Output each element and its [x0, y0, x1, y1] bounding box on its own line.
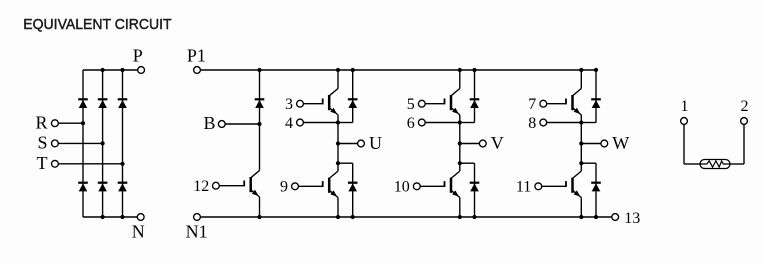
terminal 2: [741, 118, 748, 125]
terminal 10: [413, 183, 420, 190]
node V FWD rail junction: [472, 68, 476, 72]
terminal V: [479, 140, 486, 147]
node U lower branch junction: [336, 161, 340, 165]
svg-text:12: 12: [193, 178, 209, 195]
diode D4 rectifier leg1 lower: [78, 182, 88, 184]
svg-text:P1: P1: [187, 46, 206, 66]
wire V lower emitter: [459, 198, 461, 218]
svg-text:N1: N1: [186, 222, 208, 242]
wire upper emitter U: [337, 115, 339, 144]
svg-text:V: V: [491, 133, 504, 153]
node W emitter-sense junction: [579, 120, 583, 124]
diode D11 lower FWD: [470, 182, 480, 184]
wire U-phase upper collector: [337, 70, 339, 89]
wire W-phase upper collector: [580, 70, 582, 89]
transistor Q6 lower IGBT: [573, 171, 581, 178]
node V lower branch junction: [458, 161, 462, 165]
transistor Q5 upper IGBT: [573, 89, 581, 96]
node brake bottom rail junction: [257, 215, 261, 219]
svg-text:2: 2: [741, 98, 749, 115]
wire W FWD lower vertical: [595, 163, 597, 217]
node R junction: [81, 121, 85, 125]
wire upper emitter W: [580, 115, 582, 144]
wire W output: [581, 143, 601, 145]
svg-text:5: 5: [407, 96, 415, 113]
terminal 7: [540, 100, 547, 107]
wire pin3 gate: [304, 103, 323, 105]
node U output junction: [336, 141, 340, 145]
terminal 5: [418, 100, 425, 107]
terminal P1: [194, 67, 201, 74]
terminal U: [358, 140, 365, 147]
wire W lower branch: [581, 162, 596, 164]
wire pin6 emitter sense: [425, 122, 460, 124]
terminal 11: [535, 183, 542, 190]
node V bottom rail junction: [458, 215, 462, 219]
wire U mid vertical: [337, 144, 339, 172]
terminal 13: [612, 214, 619, 221]
svg-text:B: B: [203, 113, 215, 133]
node V output junction: [458, 141, 462, 145]
node B junction: [257, 122, 261, 126]
node V FWD bottom rail junction: [472, 215, 476, 219]
wire rectifier leg 2 vertical: [102, 70, 104, 217]
terminal R: [52, 120, 59, 127]
wire pin8 emitter sense: [547, 122, 582, 124]
wire S to leg: [58, 142, 102, 144]
wire rectifier top rail: [83, 69, 138, 71]
wire P1 top rail: [201, 69, 597, 71]
transistor Q1 upper IGBT: [330, 89, 338, 96]
node W FWD bottom rail junction: [594, 215, 598, 219]
wire pin12 gate: [219, 185, 244, 187]
wire brake emitter: [259, 197, 261, 217]
wire U lower emitter: [337, 198, 339, 218]
svg-text:EQUIVALENT CIRCUIT: EQUIVALENT CIRCUIT: [23, 16, 171, 33]
transistor Q7 brake IGBT: [251, 171, 259, 178]
thermistor RT1 body: [700, 160, 730, 169]
terminal W: [601, 140, 608, 147]
wire upper emitter V: [459, 115, 461, 144]
wire pin9 gate: [299, 185, 323, 187]
node U upper collector rail junction: [336, 68, 340, 72]
terminal 4: [297, 119, 304, 126]
wire pin4 emitter sense: [304, 122, 339, 124]
svg-text:8: 8: [528, 115, 536, 132]
node W bottom rail junction: [579, 215, 583, 219]
svg-text:4: 4: [285, 115, 293, 132]
node brake top rail junction: [257, 68, 261, 72]
svg-text:10: 10: [394, 179, 410, 196]
wire pin11 gate: [542, 185, 566, 187]
node U FWD rail junction: [351, 68, 355, 72]
wire W FWD upper vertical: [595, 70, 597, 123]
terminal S: [52, 140, 59, 147]
wire R to leg: [58, 122, 83, 124]
node U emitter-sense junction: [336, 120, 340, 124]
terminal 6: [418, 119, 425, 126]
diode D5 rectifier leg2 lower: [98, 182, 108, 184]
wire U FWD lower vertical: [352, 163, 354, 217]
terminal 8: [540, 119, 547, 126]
node W lower branch junction: [579, 161, 583, 165]
wire N1 bottom rail: [201, 216, 612, 218]
wire rectifier leg 3 vertical: [122, 70, 124, 217]
wire B to brake leg: [225, 123, 259, 125]
transistor Q3 upper IGBT: [452, 89, 460, 96]
svg-text:R: R: [35, 113, 47, 133]
wire V FWD upper vertical: [474, 70, 476, 123]
svg-text:W: W: [612, 133, 629, 153]
wire V-phase upper collector: [459, 70, 461, 89]
node U FWD bottom rail junction: [351, 215, 355, 219]
wire V output: [460, 143, 480, 145]
terminal N1: [194, 214, 201, 221]
diode D6 rectifier leg3 lower: [118, 182, 128, 184]
diode D10 upper FWD: [470, 98, 480, 100]
diode D9 lower FWD: [348, 182, 358, 184]
wire thermistor right: [743, 125, 745, 165]
diode D2 rectifier leg2 upper: [98, 98, 108, 100]
node S junction: [101, 141, 105, 145]
svg-text:7: 7: [528, 96, 536, 113]
svg-text:11: 11: [516, 179, 531, 196]
wire U lower branch: [338, 162, 353, 164]
junction dots rectifier bottom rail: [101, 215, 105, 219]
node V upper collector rail junction: [458, 68, 462, 72]
svg-text:S: S: [37, 133, 47, 153]
diode D8 upper FWD: [348, 98, 358, 100]
svg-text:3: 3: [285, 96, 293, 113]
svg-text:U: U: [369, 133, 382, 153]
svg-text:13: 13: [624, 210, 640, 227]
svg-text:T: T: [37, 153, 48, 173]
node V emitter-sense junction: [458, 120, 462, 124]
svg-text:P: P: [133, 46, 143, 66]
svg-text:9: 9: [280, 179, 288, 196]
diode D7 brake: [255, 98, 265, 100]
svg-text:6: 6: [407, 115, 415, 132]
transistor Q4 lower IGBT: [452, 171, 460, 178]
wire W FWD upper return: [581, 122, 596, 124]
terminal N: [137, 214, 144, 221]
diode D13 lower FWD: [591, 182, 601, 184]
diode D12 upper FWD: [591, 98, 601, 100]
node U bottom rail junction: [336, 215, 340, 219]
diode D3 rectifier leg3 upper: [118, 98, 128, 100]
terminal P: [138, 67, 145, 74]
terminal 3: [297, 100, 304, 107]
wire brake leg upper: [259, 70, 261, 171]
wire rectifier leg 1 vertical: [82, 70, 84, 217]
terminal 12: [213, 182, 220, 189]
wire pin5 gate: [425, 103, 444, 105]
node W upper collector rail junction: [579, 68, 583, 72]
junction dots rectifier top rail: [101, 68, 105, 72]
svg-text:1: 1: [681, 98, 689, 115]
wire W lower emitter: [580, 198, 582, 218]
svg-text:N: N: [132, 222, 145, 242]
wire V FWD lower vertical: [474, 163, 476, 217]
node W output junction: [579, 141, 583, 145]
wire U FWD upper return: [338, 122, 353, 124]
wire V mid vertical: [459, 144, 461, 172]
wire U FWD upper vertical: [352, 70, 354, 123]
transistor Q2 lower IGBT: [330, 171, 338, 178]
wire V lower branch: [460, 162, 475, 164]
node T junction: [120, 162, 124, 166]
terminal T: [52, 160, 59, 167]
wire thermistor left: [683, 125, 685, 165]
terminal 9: [292, 183, 299, 190]
wire V FWD upper return: [460, 122, 475, 124]
diode D1 rectifier leg1 upper: [78, 98, 88, 100]
wire pin10 gate: [420, 185, 444, 187]
terminal 1: [681, 118, 688, 125]
wire pin7 gate: [547, 103, 566, 105]
wire rectifier bottom rail: [83, 216, 137, 218]
terminal B: [218, 121, 225, 128]
wire U output: [338, 143, 358, 145]
wire W mid vertical: [580, 144, 582, 172]
node W FWD rail junction: [594, 68, 598, 72]
wire T to leg: [58, 163, 122, 165]
